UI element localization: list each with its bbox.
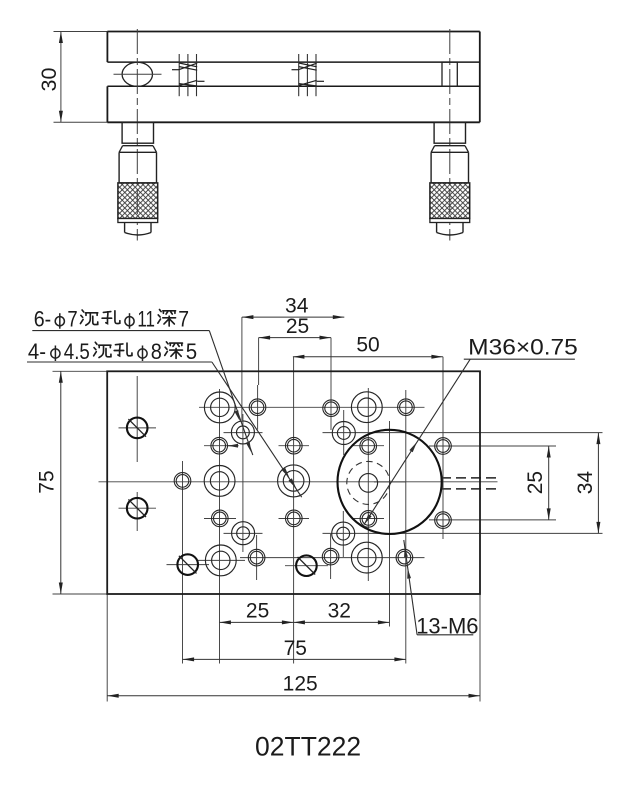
svg-text:4.5: 4.5 (64, 339, 90, 364)
svg-text:5: 5 (186, 339, 197, 364)
svg-text:25: 25 (524, 471, 547, 494)
svg-text:6-: 6- (34, 307, 51, 332)
svg-text:30: 30 (37, 68, 61, 92)
svg-text:4-: 4- (28, 339, 46, 364)
svg-text:75: 75 (36, 470, 59, 493)
svg-text:02TT222: 02TT222 (255, 732, 361, 762)
svg-text:25: 25 (246, 600, 269, 623)
svg-text:7: 7 (67, 307, 77, 332)
svg-text:50: 50 (356, 334, 379, 357)
svg-text:75: 75 (284, 637, 307, 660)
svg-text:34: 34 (285, 294, 309, 317)
svg-text:125: 125 (283, 673, 318, 696)
svg-text:M36×0.75: M36×0.75 (468, 335, 578, 360)
svg-text:34: 34 (574, 471, 597, 495)
svg-text:11: 11 (137, 307, 155, 332)
svg-text:25: 25 (286, 315, 309, 338)
svg-text:8: 8 (151, 339, 162, 364)
svg-text:7: 7 (178, 307, 189, 332)
svg-text:32: 32 (328, 600, 351, 623)
